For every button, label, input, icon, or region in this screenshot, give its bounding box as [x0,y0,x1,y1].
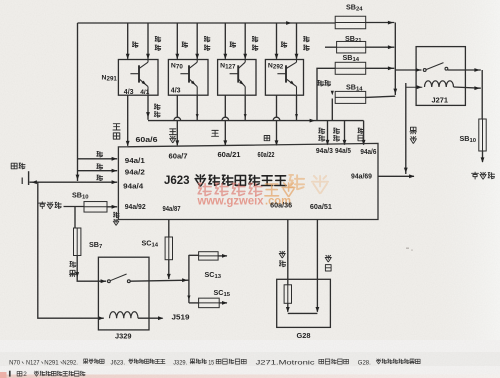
fuse SB10 left [84,202,107,213]
wire supply rail node A vertical [394,23,396,96]
label wire colour brown (N291 left) [132,42,138,47]
wire bus drop to J623 pin 94a/3 (red-green) [327,121,329,145]
label wire colour brown-green (N292 right) [304,37,310,42]
crossover hop at N127 output [222,117,229,120]
fuse SC13 [199,252,219,260]
svg-text:15: 15 [208,359,214,366]
transistor inside N127 [230,73,239,75]
svg-text:70: 70 [176,64,183,71]
switch contact inside J271 [423,69,426,72]
svg-text:94a/3: 94a/3 [316,148,333,155]
crossover hop at N70 output [174,117,181,120]
label wire colour black-grey [410,127,417,134]
ECU J623 box [118,143,378,219]
label wire colour grey-white [325,255,331,261]
svg-text:60a/22: 60a/22 [258,152,275,159]
wire N127 right output joining bus [244,95,246,120]
wire N292 right output joining bus [296,95,298,120]
wire supply drop to N127 pin left [224,23,226,59]
wire left supply rail [77,23,79,181]
relay J329 box [98,257,149,330]
svg-text:N127: N127 [26,359,40,366]
fuse SB10 right [479,119,486,151]
crossover hop at N292 output [273,117,280,120]
label wire colour brown-green (N291 right) [155,37,161,42]
switch contact inside J329 [108,280,111,283]
wire bus end drop to J623 pin 94a/6 (red-white) [363,121,365,145]
watermark text line 1 [198,183,211,195]
transistor inside N70 [180,73,189,75]
speckle artifact [406,248,409,249]
wire sensor element down [287,303,289,312]
label wire colour brown (N127 left) [230,42,236,47]
fuse SB21 [337,41,366,53]
wire N70 right output joining bus [196,95,198,120]
wire supply drop to N291 pin right [147,23,149,59]
wire node A to J271 switch contact [395,69,421,71]
wire J271 coil output right [454,87,481,88]
svg-text:94a/87: 94a/87 [163,206,181,213]
label wire colour brown (N70 left) [182,42,188,47]
fuse SC15 [199,298,220,308]
label engine control unit title [195,175,205,186]
label red-white at 94a/6 [358,128,364,133]
svg-text:J329: J329 [115,331,131,340]
wire ground rail to J623 pin 94a/4 [30,181,118,183]
relay J271 box [416,47,465,106]
fuse SB14 third [335,62,366,74]
wire J271 switch output [448,69,481,71]
wire N291 4/3 output to J623 pin 60a/6 (violet-yellow) [127,95,129,146]
wire SB10 to J623 pin 94a/92 [107,206,117,208]
watermark big character [289,175,304,189]
wire branch node for SC13/SC15 [188,255,190,303]
wire SB24 output to supply node [366,22,395,24]
wire SB10 to battery constant supply [482,151,484,162]
caption line 2 figure title [9,371,11,377]
svg-text:G28: G28 [297,331,311,340]
label red-green at 94a/3 [319,128,325,134]
label brown wire 94a/4 [97,175,103,180]
wire long ground feed to J329 coil [38,182,104,318]
red corner mark [0,372,7,378]
label wire colour blue [264,136,270,141]
label wire colour red-green at riser [318,81,324,86]
svg-text:94a/2: 94a/2 [125,170,145,177]
svg-text:4/1: 4/1 [140,89,149,96]
wire supply drop to N292 pin right [296,23,298,59]
svg-text:60a/51: 60a/51 [310,204,332,211]
svg-text:J623: J623 [164,175,190,187]
wire J329 coil output to J519 [138,317,163,319]
svg-text:94a/1: 94a/1 [125,158,145,165]
label red-green at 94a/5 [334,128,340,134]
bus direction arrow [310,119,315,123]
sensor element inside G28 [284,285,291,304]
wire branch to J623 pin 94a/1 [78,158,118,160]
label wire colour brown-green (N127 right) [252,37,258,42]
wire coil feed arrow [406,86,423,88]
wire N292 left output over bus to J623 pin 60a/22 (blue) [276,95,278,117]
wire J623 pin 60a/51 to G28 (grey-white) [316,220,318,312]
svg-text:94a/5: 94a/5 [335,148,351,155]
ignition coil N127 box [218,60,256,96]
label wire colour violet-yellow [113,124,120,130]
wire riser from bus to fuse SB14 (fourth) [331,99,333,121]
svg-text:60a/36: 60a/36 [270,203,292,210]
wire supply drop to N291 pin left [127,23,129,59]
wire top supply bus [78,22,336,24]
svg-text:J271: J271 [432,96,448,105]
label wire colour violet-grey [169,129,176,135]
wire supply drop to N127 pin right [244,23,246,59]
wire branch to J623 pin 94a/2 [78,170,118,172]
wire N127 left output over bus to J623 pin 60a/21 (violet) [224,95,226,117]
svg-text:J519: J519 [172,313,190,322]
wire joining sensor leads [288,312,318,314]
svg-text:2: 2 [23,371,27,378]
wire J623 pin 60a/36 to G28 (grey-red) [287,220,289,285]
svg-text:www.gzweix: www.gzweix [197,194,264,208]
label wire colour red-grey [114,212,120,217]
wire red-green collector bus [148,120,364,122]
speed sensor G28 box [277,279,331,327]
label constant hot wire (left) [39,202,46,209]
svg-text:291: 291 [107,76,118,83]
label chassis ground [11,163,17,169]
svg-text:60a/21: 60a/21 [218,152,241,159]
wire right feed rail down to SB10 [481,70,483,119]
wire black-grey from coil down to J623 pin 94a/69 [405,83,407,174]
chassis ground symbol [21,178,23,185]
wire SC13 output [218,255,227,257]
wire supply drop to N70 pin right [196,23,198,59]
fuse SB7 [74,228,81,256]
label wire colour violet [212,130,219,136]
fuse SB14 fourth [335,91,366,103]
svg-text:J271.Motronic: J271.Motronic [256,359,315,366]
wire SC14 down to switch line [168,260,170,279]
ignition coil N70 box [168,60,208,96]
wire SC15 output [219,302,227,304]
wire J329 switch output to SC fuses [130,280,189,281]
label brown wire 94a/2 [97,164,103,169]
svg-text:94a/69: 94a/69 [351,174,372,181]
svg-text:4/3: 4/3 [124,89,134,96]
svg-text:94a/92: 94a/92 [125,204,146,211]
ignition coil N292 box [265,60,303,96]
ignition coil N291 box [118,60,158,96]
svg-text:60a/6: 60a/6 [136,137,158,144]
svg-text:94a/6: 94a/6 [360,149,376,156]
svg-text:292: 292 [273,64,284,71]
wire SB7 to J329 switch (red-black) [77,256,106,282]
svg-text:N70: N70 [9,359,20,366]
label brown wire 94a/1 [97,152,103,157]
transistor inside N291 [130,73,139,75]
svg-text:N291: N291 [44,359,59,366]
wire N291 4/1 output to bus (red-green) [147,95,149,120]
label wire colour red-black [70,262,76,268]
wire SB21 output to supply node [366,46,395,48]
wire SB21 input stub [325,46,337,48]
svg-text:J329.: J329. [173,359,187,366]
wire bus drop to J623 pin 94a/5 (red-green) [344,121,346,145]
svg-text:J623.: J623. [111,359,126,366]
svg-text:127: 127 [225,64,236,71]
fuse SB24 [335,16,366,29]
label wire colour brown-green (N70 right) [204,37,210,42]
svg-text:94a/4: 94a/4 [123,184,143,191]
wire J623 pin 94a/69 to relay coil node [378,175,414,177]
wire N70 left output over bus to J623 pin 60a/7 (violet-grey) [176,95,178,117]
label wire colour brown (N292 left) [281,42,287,47]
svg-text:4/3: 4/3 [171,88,181,95]
wire SB14 fourth output [366,96,396,97]
wire riser from bus to fuse SB14 (third) [317,68,335,120]
fuse SC14 [165,237,172,260]
wire supply drop to N70 pin left [176,23,178,59]
label constant hot wire (right) [472,172,479,179]
relay coil winding J271 [425,81,454,87]
label wire colour grey-red [279,251,285,257]
label wire colour red-green at N291 [154,104,160,109]
relay coil winding J329 [110,312,139,319]
wire branch down to fuse SB7 [74,207,76,229]
wire J623 pin 94a/87 down to fuse SC14 [168,220,170,238]
wire to fuse SC15 [189,302,199,304]
wire to fuse SC13 [189,254,199,256]
svg-text:G28.: G28. [358,359,371,366]
svg-text:60a/7: 60a/7 [169,154,188,161]
svg-text:N292.: N292. [62,359,78,366]
wire SB14 output to supply node [366,67,395,69]
transistor inside N292 [277,73,286,75]
wire supply drop to N292 pin left [276,23,278,59]
wire constant hot feed to fuse SB10 [64,206,85,208]
